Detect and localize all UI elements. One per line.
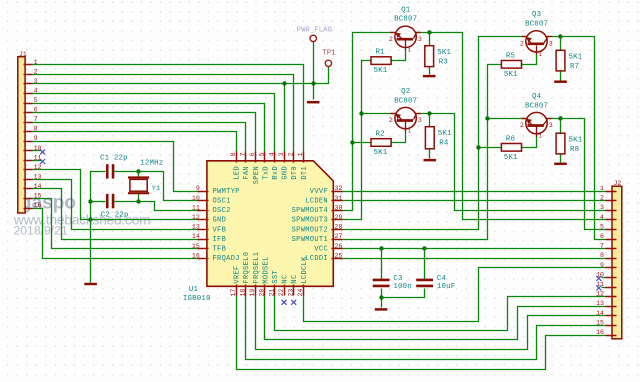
wire Y1 bottom pin bbox=[138, 194, 140, 202]
junction Y1 top bbox=[136, 169, 140, 173]
test point TP1 bbox=[325, 60, 331, 66]
svg-text:IFB: IFB bbox=[213, 236, 227, 244]
svg-text:R5: R5 bbox=[506, 52, 515, 60]
wire U1 pin25 LCDDI to J2 pin 8 bbox=[343, 258, 606, 260]
pin stub U1 bottom pin 24 bbox=[303, 285, 305, 296]
svg-text:4: 4 bbox=[268, 152, 275, 156]
svg-text:PWMTYP: PWMTYP bbox=[213, 188, 240, 196]
pin stub U1 top pin 3 bbox=[284, 152, 286, 163]
wire Q1 base to R1 bbox=[392, 50, 406, 61]
svg-text:11: 11 bbox=[192, 204, 200, 211]
wire U1 pin 19 to J2 pin 14 bbox=[256, 296, 606, 350]
junction R6 left on rail bbox=[476, 145, 480, 149]
resistor R2 bbox=[371, 139, 391, 147]
svg-text:2: 2 bbox=[520, 122, 524, 129]
svg-text:2: 2 bbox=[389, 117, 393, 124]
svg-text:R1: R1 bbox=[376, 49, 386, 57]
wire R3 bottom to ground bar bbox=[429, 67, 431, 75]
svg-text:VVVF: VVVF bbox=[310, 188, 328, 196]
svg-text:13: 13 bbox=[596, 300, 604, 307]
wire R6 left to rail bbox=[479, 147, 502, 149]
svg-text:VFB: VFB bbox=[213, 226, 227, 234]
pin stub U1 top pin 2 bbox=[293, 152, 295, 163]
svg-text:NC: NC bbox=[291, 274, 299, 283]
wire C2 left plate bbox=[91, 201, 106, 203]
svg-text:26: 26 bbox=[335, 243, 343, 250]
junction Q2 emitter on rail bbox=[359, 111, 363, 115]
svg-text:9: 9 bbox=[196, 185, 200, 192]
svg-text:5K1: 5K1 bbox=[504, 71, 518, 79]
svg-text:10uF: 10uF bbox=[437, 283, 456, 291]
svg-text:FRQSEL1: FRQSEL1 bbox=[253, 252, 261, 284]
svg-text:8: 8 bbox=[600, 252, 604, 259]
svg-text:Q3: Q3 bbox=[532, 11, 541, 19]
wire R8 top bbox=[560, 119, 562, 134]
pin stub U1 top pin 6 bbox=[255, 152, 257, 163]
svg-text:17: 17 bbox=[230, 289, 237, 297]
pin stub U1 pin 9 left bbox=[198, 191, 209, 193]
svg-text:16: 16 bbox=[34, 202, 42, 209]
transistor Q4 BC807 bbox=[522, 112, 552, 136]
svg-text:10: 10 bbox=[596, 271, 604, 278]
svg-text:3: 3 bbox=[34, 78, 38, 85]
svg-text:MODSEL: MODSEL bbox=[262, 256, 270, 283]
svg-text:27: 27 bbox=[335, 233, 343, 240]
svg-text:OSC2: OSC2 bbox=[213, 207, 231, 215]
wire J1 pin 3 to U1 top pin 3 bbox=[33, 83, 314, 85]
wire Q2 base to R2 bbox=[392, 131, 406, 143]
pin stub U1 pin 13 left bbox=[198, 229, 209, 231]
svg-text:4: 4 bbox=[34, 87, 38, 94]
wire C4 bottom to node bbox=[382, 289, 425, 298]
svg-text:SPWMOUT3: SPWMOUT3 bbox=[292, 217, 328, 225]
wire Q4 emitter from rail bbox=[488, 118, 526, 120]
svg-text:1: 1 bbox=[408, 46, 412, 53]
ground bar below C3 C4 bbox=[375, 308, 388, 311]
svg-text:6: 6 bbox=[34, 107, 38, 114]
svg-text:TFB: TFB bbox=[213, 246, 227, 254]
svg-text:2018/9/21: 2018/9/21 bbox=[14, 224, 68, 238]
wire U1 pin 24 to J2 pin 9 bbox=[304, 268, 606, 322]
svg-text:21: 21 bbox=[268, 289, 275, 297]
svg-text:4: 4 bbox=[600, 214, 604, 221]
wire U1 pin31 LCDEN to J2 pin 2 bbox=[343, 200, 606, 202]
ground bar below R7 bbox=[554, 80, 567, 83]
svg-text:LCDCLK: LCDCLK bbox=[301, 256, 309, 284]
pin stub U1 top pin 7 bbox=[245, 152, 247, 163]
svg-text:22: 22 bbox=[278, 289, 285, 297]
connector J2 bbox=[606, 186, 622, 339]
svg-text:12: 12 bbox=[34, 164, 42, 171]
svg-text:11: 11 bbox=[596, 281, 604, 288]
svg-text:Q1: Q1 bbox=[401, 6, 411, 14]
resistor R1 bbox=[371, 57, 391, 65]
svg-text:SPWMOUT1: SPWMOUT1 bbox=[292, 236, 328, 244]
svg-text:PWR_FLAG: PWR_FLAG bbox=[297, 26, 332, 34]
wire Q4 base to R6 bbox=[522, 136, 537, 148]
svg-text:12MHz: 12MHz bbox=[140, 160, 163, 168]
svg-text:18: 18 bbox=[240, 289, 247, 297]
ground bar PWR_FLAG net bbox=[307, 101, 320, 104]
junction C2 left on GND rail bbox=[88, 199, 92, 203]
svg-text:OSC1: OSC1 bbox=[213, 198, 231, 206]
junction C3 top on VCC bbox=[379, 246, 383, 250]
wire R8 bottom to ground bar bbox=[560, 154, 562, 163]
svg-text:IGB010: IGB010 bbox=[183, 295, 211, 303]
svg-text:GND: GND bbox=[213, 217, 227, 225]
wire Q3 collector down to J2 pin 6 bbox=[548, 37, 606, 240]
svg-text:7: 7 bbox=[34, 116, 38, 123]
junction R2 left on rail bbox=[350, 140, 354, 144]
svg-text:9: 9 bbox=[600, 262, 604, 269]
transistor Q3 BC807 bbox=[522, 31, 552, 55]
svg-text:2: 2 bbox=[34, 68, 38, 75]
no-connect X J2 pin 10 bbox=[596, 276, 601, 281]
svg-text:10: 10 bbox=[192, 195, 200, 202]
pin stub U1 pin 30 right bbox=[332, 210, 343, 212]
svg-text:gaspo: gaspo bbox=[20, 192, 76, 213]
svg-text:FRQSEL0: FRQSEL0 bbox=[243, 252, 251, 284]
wire Q1 collector down to J2 pin 4 bbox=[417, 33, 606, 220]
svg-text:10: 10 bbox=[34, 145, 42, 152]
svg-text:16: 16 bbox=[596, 329, 604, 336]
svg-text:R2: R2 bbox=[376, 131, 385, 139]
no-connect X U1 pin 23 bbox=[291, 300, 296, 305]
svg-text:GND: GND bbox=[282, 166, 290, 180]
wire J1 pin 10 stub bbox=[33, 150, 42, 152]
svg-text:1: 1 bbox=[539, 51, 543, 58]
junction R4 top on Q2 collector bbox=[427, 111, 431, 115]
wire TP1 to net junction bbox=[314, 67, 329, 84]
svg-text:C2 22p: C2 22p bbox=[101, 212, 129, 220]
svg-text:VCC: VCC bbox=[314, 246, 328, 254]
transistor Q2 BC807 bbox=[391, 107, 421, 131]
wire R4 bottom to ground bar bbox=[429, 149, 431, 159]
svg-text:19: 19 bbox=[249, 289, 256, 297]
wire C4 top bbox=[424, 249, 426, 280]
svg-text:2: 2 bbox=[389, 36, 393, 43]
svg-text:5K1: 5K1 bbox=[569, 54, 583, 62]
svg-text:RxD: RxD bbox=[272, 166, 280, 180]
svg-text:3: 3 bbox=[549, 41, 553, 48]
svg-text:BC807: BC807 bbox=[525, 103, 548, 111]
svg-text:100n: 100n bbox=[393, 283, 412, 291]
svg-text:FRQADJ: FRQADJ bbox=[213, 255, 240, 263]
wire J2 pin 10 stub bbox=[602, 277, 606, 279]
svg-text:1: 1 bbox=[297, 152, 304, 156]
no-connect X U1 pin 22 bbox=[282, 300, 287, 305]
svg-text:BC807: BC807 bbox=[394, 16, 417, 24]
pin stub U1 pin 25 right bbox=[332, 258, 343, 260]
svg-text:R7: R7 bbox=[570, 63, 579, 71]
pin stub U1 pin 16 left bbox=[198, 258, 209, 260]
wire PWR_FLAG stem to net and ground bar bbox=[313, 42, 315, 100]
capacitor C1 bbox=[106, 164, 109, 178]
svg-text:20: 20 bbox=[259, 289, 266, 297]
wire R4 top bbox=[429, 114, 431, 127]
junction R3 top on Q1 collector bbox=[427, 30, 431, 34]
svg-text:3: 3 bbox=[418, 36, 422, 43]
wire J1 pin 5 to U1 top pin 5 bbox=[33, 104, 265, 152]
svg-text:31: 31 bbox=[335, 195, 343, 202]
wire C3 top bbox=[381, 249, 383, 280]
svg-text:14: 14 bbox=[192, 233, 200, 240]
svg-text:3: 3 bbox=[278, 152, 285, 156]
svg-text:25: 25 bbox=[335, 252, 343, 259]
pin stub U1 bottom pin 20 bbox=[264, 285, 266, 296]
pin stub U1 bottom pin 23 bbox=[293, 285, 295, 296]
pin stub U1 pin 32 right bbox=[332, 191, 343, 193]
pin stub U1 top pin 1 bbox=[303, 152, 305, 163]
wire C2 right / Y1 bottom to U1 OSC2 bbox=[115, 202, 198, 211]
wire J1 pin 16 to U1 pin 16 bbox=[33, 209, 198, 259]
pin stub U1 top pin 5 bbox=[264, 152, 266, 163]
wire C3 bottom to ground bar bbox=[381, 289, 383, 308]
svg-text:3: 3 bbox=[418, 117, 422, 124]
wire J1 pin 6 to U1 top pin 6 bbox=[33, 113, 256, 152]
svg-text:R4: R4 bbox=[439, 139, 449, 147]
svg-text:12: 12 bbox=[596, 291, 604, 298]
wire U1 pin 18 to J2 pin 15 bbox=[246, 296, 606, 360]
svg-text:11: 11 bbox=[34, 154, 42, 161]
svg-text:16: 16 bbox=[192, 252, 200, 259]
pin stub U1 bottom pin 22 bbox=[284, 285, 286, 296]
svg-text:8: 8 bbox=[34, 126, 38, 133]
svg-text:12: 12 bbox=[192, 214, 200, 221]
crystal Y1 bbox=[128, 178, 149, 194]
pin stub U1 pin 12 left bbox=[198, 219, 209, 221]
pin stub U1 pin 28 right bbox=[332, 229, 343, 231]
wire Q4 collector down to J2 pin 5 bbox=[548, 119, 606, 230]
pin stub U1 pin 14 left bbox=[198, 239, 209, 241]
ground bar oscillator GND rail bbox=[84, 283, 97, 286]
svg-text:32: 32 bbox=[335, 185, 343, 192]
svg-text:VREF: VREF bbox=[234, 265, 242, 283]
capacitor C2 bbox=[106, 194, 109, 208]
wire R2 left to rail bbox=[353, 142, 372, 144]
resistor R8 bbox=[556, 133, 565, 154]
wire U1 pin28 SPWMOUT2 up rail to Q3 emitter bbox=[343, 37, 526, 230]
resistor R4 bbox=[425, 127, 434, 149]
svg-text:3: 3 bbox=[549, 122, 553, 129]
svg-text:28: 28 bbox=[335, 224, 343, 231]
capacitor C3 bbox=[373, 279, 390, 282]
wire C1 left to GND rail down to ground bar bbox=[91, 172, 106, 283]
no-connect X J1 pin 11 bbox=[40, 159, 45, 164]
svg-text:1: 1 bbox=[539, 133, 543, 140]
pin stub U1 pin 10 left bbox=[198, 200, 209, 202]
svg-text:23: 23 bbox=[288, 289, 295, 297]
svg-text:Q4: Q4 bbox=[532, 93, 542, 101]
wire R3 top bbox=[429, 33, 431, 46]
svg-text:Y1: Y1 bbox=[152, 185, 160, 193]
pin stub U1 pin 27 right bbox=[332, 239, 343, 241]
pin stub U1 pin 31 right bbox=[332, 200, 343, 202]
wire U1 pin30 SPWMOUT4 up rail to Q1 emitter bbox=[343, 33, 395, 211]
svg-text:29: 29 bbox=[335, 214, 343, 221]
wire J1 pin 8 to U1 top pin 8 bbox=[33, 132, 237, 152]
svg-text:R8: R8 bbox=[570, 146, 579, 154]
pin stub U1 bottom pin 21 bbox=[274, 285, 276, 296]
no-connect X J2 pin 11 bbox=[596, 286, 601, 291]
pin stub U1 pin 29 right bbox=[332, 219, 343, 221]
svg-text:1: 1 bbox=[408, 128, 412, 135]
svg-text:5: 5 bbox=[34, 97, 38, 104]
pin stub U1 bottom pin 18 bbox=[245, 285, 247, 296]
svg-text:BC807: BC807 bbox=[525, 20, 548, 28]
svg-text:LCDEN: LCDEN bbox=[305, 198, 328, 206]
wire R7 bottom to ground bar bbox=[560, 71, 562, 81]
wire U1 pin27 SPWMOUT1 up rail to R5 left bbox=[343, 65, 502, 240]
wire C1 right / Y1 top to U1 OSC1 bbox=[115, 172, 198, 201]
resistor R5 bbox=[501, 61, 521, 69]
junction R7 top on Q3 collector bbox=[558, 34, 562, 38]
resistor R7 bbox=[556, 50, 565, 71]
svg-text:5: 5 bbox=[259, 152, 266, 156]
svg-text:SPWMOUT4: SPWMOUT4 bbox=[292, 207, 328, 215]
wire R7 top bbox=[560, 37, 562, 51]
svg-text:2: 2 bbox=[600, 195, 604, 202]
svg-text:9: 9 bbox=[34, 135, 38, 142]
svg-text:J2: J2 bbox=[614, 180, 622, 187]
svg-text:5: 5 bbox=[600, 223, 604, 230]
wire Y1 top pin bbox=[138, 172, 140, 178]
wire Q2 collector down to J2 pin 3 bbox=[417, 114, 606, 211]
svg-text:Q2: Q2 bbox=[401, 88, 410, 96]
svg-text:30: 30 bbox=[335, 204, 343, 211]
svg-text:14: 14 bbox=[34, 183, 42, 190]
svg-text:2: 2 bbox=[520, 41, 524, 48]
svg-text:R6: R6 bbox=[506, 135, 515, 143]
svg-text:LED: LED bbox=[234, 166, 242, 180]
ground bar below R4 bbox=[424, 159, 437, 162]
svg-text:U1: U1 bbox=[189, 286, 199, 294]
IC U1 body bbox=[207, 161, 333, 286]
svg-text:SPWMOUT2: SPWMOUT2 bbox=[292, 226, 328, 234]
power flag PWR_FLAG bbox=[310, 35, 316, 41]
svg-text:1: 1 bbox=[34, 59, 38, 66]
svg-text:C1 22p: C1 22p bbox=[100, 155, 128, 163]
transistor Q1 BC807 bbox=[391, 26, 421, 49]
wire J2 pin 11 stub bbox=[602, 287, 606, 289]
pin stub U1 pin 11 left bbox=[198, 210, 209, 212]
svg-text:5K1: 5K1 bbox=[374, 149, 388, 157]
svg-text:J1: J1 bbox=[19, 51, 27, 58]
junction R8 top on Q4 collector bbox=[558, 116, 562, 120]
svg-text:FAN: FAN bbox=[243, 166, 251, 180]
junction node J1.3/PWR_FLAG bbox=[282, 81, 286, 85]
wire J1 pin 4 to U1 top pin 4 bbox=[33, 94, 275, 152]
svg-text:BC807: BC807 bbox=[394, 97, 417, 105]
svg-text:C4: C4 bbox=[437, 275, 447, 283]
svg-text:5K1: 5K1 bbox=[569, 136, 583, 144]
svg-text:15: 15 bbox=[34, 193, 42, 200]
wire J1 pin 15 to U1 pin 15 bbox=[33, 199, 198, 249]
svg-text:DT0: DT0 bbox=[291, 166, 299, 180]
wire Q3 base to R5 bbox=[522, 54, 537, 65]
wire J1 pin 12 to U1 pin 12 GND bbox=[33, 170, 198, 220]
wire U1 pin26 VCC to J2 pin 7 bbox=[343, 248, 606, 250]
ground bar below R3 bbox=[423, 75, 436, 78]
svg-text:5K1: 5K1 bbox=[504, 154, 518, 162]
junction Q4 emitter on rail bbox=[485, 116, 489, 120]
no-connect X J1 pin 10 bbox=[40, 149, 45, 154]
wire U1 pin 20 to J2 pin 13 bbox=[265, 296, 606, 340]
wire J1 pin 2 to U1 top pin 2 bbox=[33, 75, 294, 152]
wire U1 pin3 GND branch down bbox=[284, 84, 286, 152]
connector J1 bbox=[18, 57, 33, 213]
svg-text:24: 24 bbox=[297, 289, 304, 297]
svg-text:3: 3 bbox=[600, 204, 604, 211]
pin stub U1 top pin 8 bbox=[236, 152, 238, 163]
wire J1 pin 11 stub bbox=[33, 160, 42, 162]
svg-text:TP1: TP1 bbox=[323, 50, 336, 58]
wire J1 pin 13 to U1 pin 13 bbox=[33, 180, 198, 230]
svg-text:8: 8 bbox=[230, 152, 237, 156]
pin stub U1 bottom pin 19 bbox=[255, 285, 257, 296]
junction Y1 bottom bbox=[136, 199, 140, 203]
resistor R3 bbox=[425, 46, 434, 67]
wire U1 pin 21 to J2 pin 12 bbox=[275, 296, 606, 331]
wire J1 pin 14 to U1 pin 14 bbox=[33, 189, 198, 240]
svg-text:NC: NC bbox=[282, 274, 290, 283]
junction GND rail at U1 GND row bbox=[88, 217, 92, 221]
svg-text:5K1: 5K1 bbox=[437, 49, 451, 57]
pin stub U1 top pin 4 bbox=[274, 152, 276, 163]
svg-text:7: 7 bbox=[240, 152, 247, 156]
svg-text:1: 1 bbox=[600, 185, 604, 192]
svg-text:6: 6 bbox=[249, 152, 256, 156]
wire U1 pin32 VVVF to J2 pin 1 bbox=[343, 191, 606, 193]
resistor R6 bbox=[501, 144, 521, 152]
wire J1 pin 1 to U1 top pin 1 bbox=[33, 65, 304, 152]
pin stub U1 bottom pin 17 bbox=[236, 285, 238, 296]
svg-text:R3: R3 bbox=[439, 58, 448, 66]
junction C4 bottom node bbox=[379, 295, 383, 299]
svg-text:14: 14 bbox=[596, 310, 604, 317]
svg-text:7: 7 bbox=[600, 243, 604, 250]
svg-text:2: 2 bbox=[288, 152, 295, 156]
svg-text:13: 13 bbox=[34, 173, 42, 180]
wire J1 pin 7 to U1 top pin 7 bbox=[33, 123, 246, 152]
svg-text:15: 15 bbox=[192, 243, 200, 250]
svg-text:SPEN: SPEN bbox=[253, 166, 261, 184]
junction C4 top on VCC bbox=[422, 246, 426, 250]
svg-text:SST: SST bbox=[272, 270, 280, 284]
wire U1 pin29 SPWMOUT3 up rail to R1 left bbox=[343, 61, 372, 220]
svg-text:6: 6 bbox=[600, 233, 604, 240]
svg-text:13: 13 bbox=[192, 224, 200, 231]
svg-text:TxD: TxD bbox=[262, 166, 270, 180]
capacitor C4 bbox=[416, 279, 433, 282]
wire J1 pin 9 to U1 pin 9 PWMTYP bbox=[33, 142, 198, 192]
wire Q2 emitter from rail bbox=[362, 113, 395, 115]
svg-text:5K1: 5K1 bbox=[438, 130, 452, 138]
pin stub U1 pin 15 left bbox=[198, 248, 209, 250]
svg-text:DT1: DT1 bbox=[301, 166, 309, 180]
svg-text:C3: C3 bbox=[393, 275, 402, 283]
svg-text:15: 15 bbox=[596, 319, 604, 326]
ground bar below R8 bbox=[554, 163, 567, 166]
wire U1 pin 17 to J2 pin 16 bbox=[237, 296, 606, 370]
svg-text:5K1: 5K1 bbox=[374, 67, 388, 75]
pin stub U1 pin 26 right bbox=[332, 248, 343, 250]
